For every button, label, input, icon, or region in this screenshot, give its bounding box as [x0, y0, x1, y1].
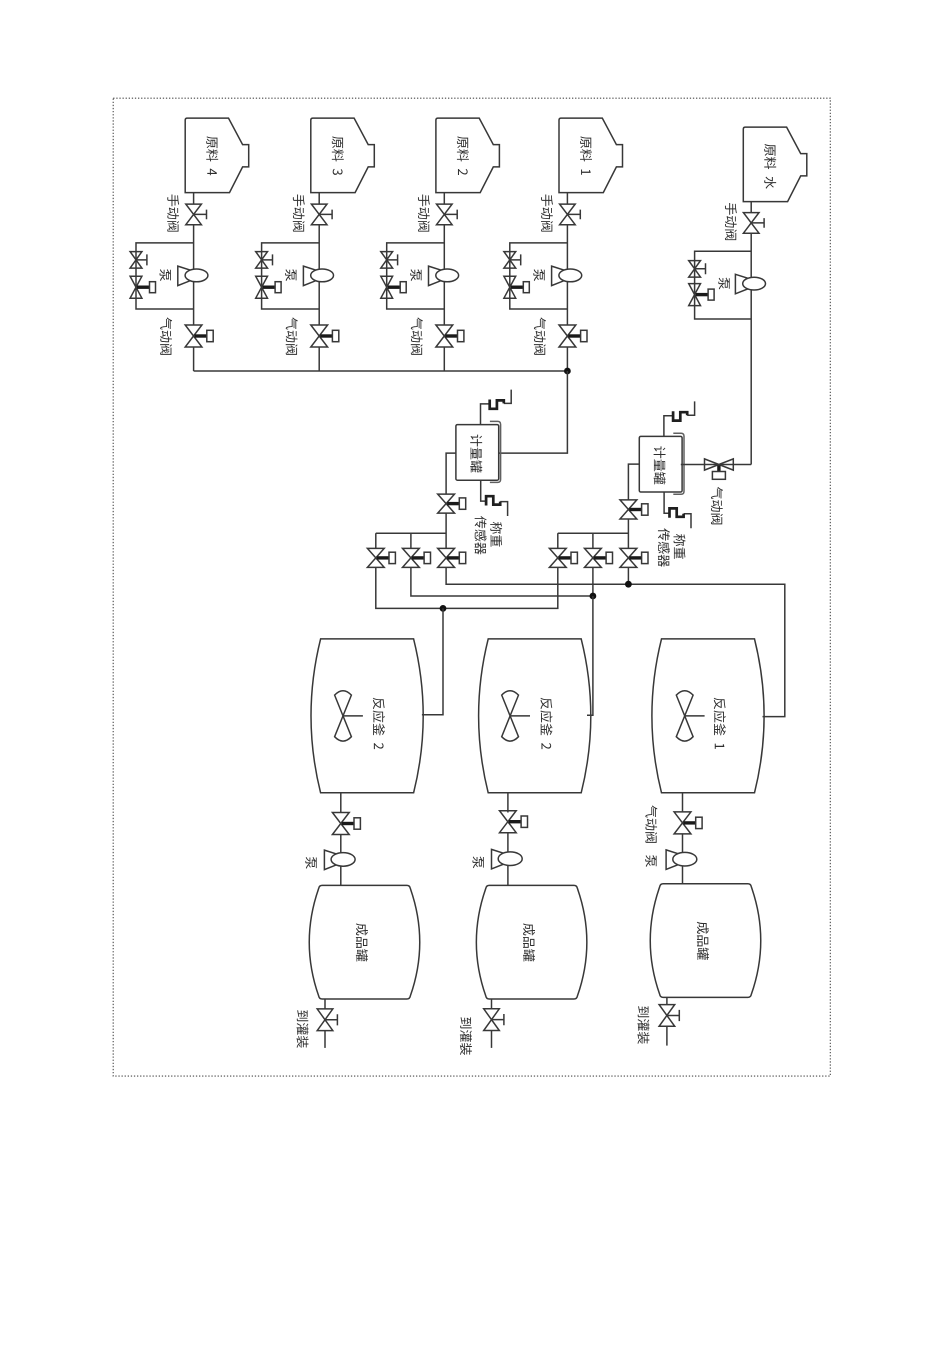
water bypass pneumatic valve: [689, 284, 714, 306]
label 气动阀 water feed: [711, 487, 723, 524]
wire manual valve to pump line: [566, 225, 568, 325]
label 传感器 tank2: [658, 528, 670, 566]
bypass loop wire: [387, 243, 445, 309]
wire tank1 outlet: [446, 453, 456, 494]
label 原料 1: [580, 136, 592, 174]
bypass loop wire: [510, 243, 568, 309]
reaction kettle 反应釜 2 (#2): [479, 639, 591, 793]
pneumatic valve below tank1: [438, 494, 466, 513]
label 成品罐 #2: [523, 923, 535, 961]
pneumatic valve below kettle2: [500, 811, 528, 833]
metering tank 计量罐 2: [639, 433, 684, 494]
agitator kettle2: [502, 691, 530, 741]
product tank 成品罐 #1: [309, 885, 420, 999]
manual valve 手动阀 col4: [186, 204, 207, 225]
outlet valve 到灌装 #3: [659, 1005, 679, 1027]
bus line (collector): [194, 370, 568, 372]
label 称重 tank1: [490, 522, 502, 547]
weighing sensor bottom tank1: [481, 480, 508, 516]
junction node line2 drop: [590, 593, 597, 600]
label 气动阀 col1: [534, 317, 546, 354]
wire valve to bus: [318, 347, 320, 371]
label 泵 col2: [410, 269, 421, 281]
manual valve 手动阀 col3: [311, 204, 332, 225]
pump 泵 col2: [429, 266, 459, 286]
label 原料 4: [206, 136, 218, 175]
wire tank1 valve to header: [445, 513, 447, 548]
label 到灌装 #2: [460, 1017, 472, 1055]
wire kettle1 outlet: [340, 793, 342, 813]
outlet valve 到灌装 #1: [317, 1009, 337, 1031]
manifold header left: [376, 532, 446, 534]
label 原料 2: [457, 136, 469, 175]
outlet valve 到灌装 #2: [484, 1009, 504, 1031]
wire tank2 outlet: [491, 999, 493, 1009]
manual valve 手动阀 col2: [437, 204, 458, 225]
bypass manual valve col3: [256, 252, 273, 269]
wire L2-R2 line (to kettle2): [411, 568, 593, 597]
tank 原料水 (water hopper): [743, 127, 807, 202]
pneumatic valve below kettle1: [332, 813, 360, 835]
label 到灌装 #3: [637, 1006, 649, 1044]
wire water valve to pump: [750, 233, 752, 464]
pump 泵 col4: [178, 266, 208, 286]
label 手动阀 col2: [418, 194, 430, 231]
wire manual valve to pump line: [443, 225, 445, 325]
weighing sensor top tank1: [481, 390, 512, 425]
manifold header right: [558, 532, 629, 534]
wire R2 stub: [592, 568, 594, 597]
label 计量罐 2: [654, 446, 666, 484]
pneumatic valve 气动阀 col1: [559, 325, 587, 347]
pneumatic valve 气动阀 col2: [436, 325, 464, 347]
wire below outlet valve #1: [324, 1031, 326, 1048]
label 泵 k1: [305, 857, 316, 869]
metering tank 计量罐 1: [456, 421, 501, 482]
tank 原料2 (raw material hopper): [436, 118, 500, 193]
label 泵 water: [718, 278, 729, 290]
bypass pneumatic valve col2: [381, 276, 406, 298]
wire valve to bus: [193, 347, 195, 371]
wire water tank to valve: [750, 202, 752, 213]
label 原料 3: [332, 136, 344, 175]
pump 泵 water: [735, 274, 765, 294]
label 手动阀 col3: [293, 194, 305, 231]
bypass pneumatic valve col1: [504, 276, 529, 298]
stub to valve R1: [557, 533, 559, 548]
label 反应釜 2: [540, 698, 552, 749]
agitator kettle3: [676, 691, 704, 741]
label 气动阀 col3: [286, 317, 298, 354]
pneumatic valve (horizontal) water feed: [705, 459, 734, 479]
label 手动阀 col1: [541, 194, 553, 231]
wire valve-pump k2: [507, 833, 509, 886]
pump 泵 col3: [303, 266, 333, 286]
reaction kettle 反应釜 2 (#1): [311, 639, 423, 793]
wire manual valve to pump line: [193, 225, 195, 325]
wire tank to manual valve: [443, 193, 445, 205]
label 气动阀 col4: [160, 317, 172, 354]
manifold valve L2: [403, 548, 431, 567]
wire R3 stub: [627, 568, 629, 585]
pneumatic valve below tank2: [620, 500, 648, 519]
wire kettle2 outlet: [507, 793, 509, 813]
wire valve-pump k3: [682, 834, 684, 884]
junction node line3 drop: [440, 605, 447, 612]
manifold valve R2: [585, 548, 613, 567]
tank 原料1 (raw material hopper): [559, 118, 623, 193]
bypass manual valve col1: [504, 252, 521, 269]
bypass pneumatic valve col4: [130, 276, 155, 298]
weighing sensor bottom tank2: [664, 492, 691, 528]
label 原料 水: [764, 144, 776, 189]
label 到灌装 #1: [296, 1010, 308, 1048]
label 气动阀 col2: [411, 317, 423, 354]
junction node line1/R3: [625, 581, 632, 588]
label 泵 k3: [645, 855, 656, 867]
stub to valve L1: [375, 533, 377, 548]
pump 泵 col1: [552, 266, 582, 286]
label 反应釜 2: [373, 698, 385, 749]
tank 原料4 (raw material hopper): [185, 118, 249, 193]
stub to valve R2: [592, 533, 594, 548]
manifold valve L3: [438, 548, 466, 567]
label 传感器 tank1: [475, 516, 487, 554]
water bypass manual valve: [689, 261, 706, 278]
label 手动阀 water: [725, 203, 737, 240]
label 称重 tank2: [674, 534, 686, 559]
wire valve-pump k1: [340, 835, 342, 886]
pump below kettle3: [666, 850, 697, 870]
label 成品罐 #1: [356, 923, 368, 961]
manifold valve R1: [549, 548, 577, 567]
label 泵 col4: [160, 269, 171, 281]
wire tank2 outlet: [628, 464, 639, 500]
wire drop to kettle2: [587, 596, 593, 715]
wire riser to metering tank1: [499, 371, 568, 453]
pneumatic valve below kettle3: [674, 812, 702, 834]
label 气动阀 kettle3: [645, 805, 657, 842]
label 成品罐 #3: [697, 922, 709, 960]
wire tank to manual valve: [318, 193, 320, 205]
wire tank to manual valve: [566, 193, 568, 205]
wire below outlet valve #2: [491, 1031, 493, 1048]
bypass manual valve col4: [130, 252, 147, 269]
pump below kettle1: [324, 850, 355, 870]
label 计量罐 1: [470, 435, 482, 473]
manifold valve L1: [367, 548, 395, 567]
wire kettle3 outlet: [682, 793, 684, 813]
wire tank3 outlet: [666, 997, 668, 1004]
wire tank to manual valve: [193, 193, 195, 205]
weighing sensor top tank2: [664, 401, 695, 436]
pump below kettle2: [492, 849, 523, 869]
manual valve 手动阀 water: [743, 213, 764, 234]
wire valve to bus: [443, 347, 445, 371]
product tank 成品罐 #2: [476, 885, 587, 999]
tank 原料3 (raw material hopper): [311, 118, 375, 193]
wire tank2 valve to header: [627, 519, 629, 548]
manual valve 手动阀 col1: [560, 204, 581, 225]
label 手动阀 col4: [167, 194, 179, 231]
junction node bus/riser: [564, 368, 571, 375]
wire manual valve to pump line: [318, 225, 320, 325]
agitator kettle1: [335, 691, 363, 741]
wire L1-R1 line (to kettle3): [376, 568, 558, 609]
bypass pneumatic valve col3: [256, 276, 281, 298]
label 反应釜 1: [714, 698, 726, 749]
wire L3-R3 line (to kettle1): [446, 568, 785, 717]
pneumatic valve 气动阀 col4: [185, 325, 213, 347]
bypass loop wire: [136, 243, 194, 309]
wire drop to kettle3: [422, 608, 443, 714]
label 泵 col3: [285, 269, 296, 281]
bypass loop wire: [262, 243, 320, 309]
stub to valve L2: [410, 533, 412, 548]
water bypass loop wire: [695, 251, 752, 319]
wire valve to bus: [566, 347, 568, 371]
reaction kettle 反应釜 1 (#3): [652, 639, 764, 793]
page border (dotted): [113, 98, 830, 1076]
wire below outlet valve #3: [666, 1026, 668, 1045]
pneumatic valve 气动阀 col3: [311, 325, 339, 347]
product tank 成品罐 #3: [650, 884, 761, 998]
wire tank1 outlet: [324, 999, 326, 1009]
manifold valve R3: [620, 548, 648, 567]
label 泵 k2: [472, 856, 483, 868]
wire water feed into tank2: [681, 464, 751, 466]
label 泵 col1: [533, 269, 544, 281]
bypass manual valve col2: [381, 252, 398, 269]
